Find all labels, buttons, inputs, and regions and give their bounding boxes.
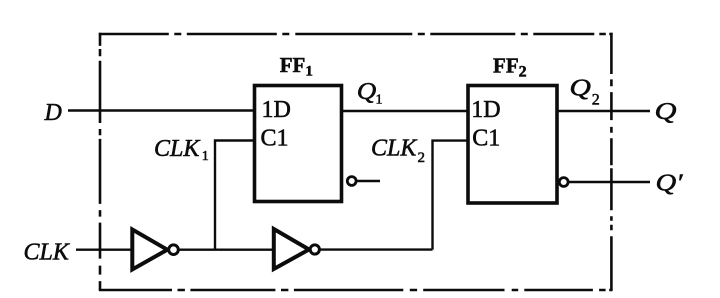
svg-text:CLK: CLK (24, 240, 71, 266)
svg-text:D: D (44, 100, 62, 126)
svg-text:1: 1 (376, 93, 383, 108)
wire CLK2 riser (433, 141, 469, 250)
svg-text:2: 2 (418, 150, 426, 166)
svg-text:Q: Q (569, 75, 591, 101)
inverter G1 bubble (169, 245, 179, 255)
wire CLK1 net (178, 248, 273, 250)
svg-text:2: 2 (592, 92, 600, 109)
wire Q output (557, 110, 650, 112)
wire Q1 (342, 110, 469, 112)
svg-text:CLK: CLK (371, 136, 418, 162)
svg-text:1: 1 (202, 149, 209, 164)
flip-flop FF2 body (468, 86, 557, 204)
svg-text:Q: Q (655, 99, 677, 125)
inverter G2 bubble (310, 245, 319, 254)
svg-text:1D: 1D (471, 97, 500, 123)
svg-text:C1: C1 (261, 125, 289, 151)
inverter G1 (132, 230, 167, 270)
wire CLK1 riser (215, 141, 255, 250)
svg-text:Q′: Q′ (656, 171, 684, 197)
flip-flop FF1 body (255, 86, 342, 202)
wire FF1 notQ stub (356, 180, 380, 182)
svg-text:Q: Q (357, 79, 377, 105)
FF1 inverted output bubble (347, 177, 356, 186)
svg-text:1D: 1D (262, 97, 291, 123)
wire Q-prime output (568, 181, 650, 183)
inverter G2 (274, 229, 309, 269)
wire CLK input (76, 248, 133, 250)
wire D input (68, 109, 255, 111)
dashed enclosure border (99, 33, 613, 290)
wire CLK2 net (319, 248, 432, 250)
svg-text:C1: C1 (472, 125, 500, 151)
svg-text:CLK: CLK (154, 136, 201, 162)
FF2 inverted output bubble (559, 178, 568, 187)
